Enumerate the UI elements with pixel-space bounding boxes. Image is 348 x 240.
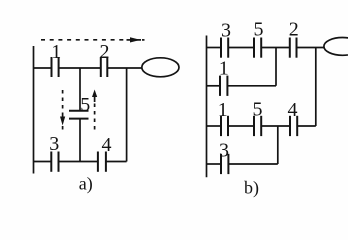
contact 3 row1 (b) plates (221, 38, 228, 58)
svg-text:a): a) (79, 173, 93, 194)
wire: row2 rail to contact 1 (b) (207, 85, 221, 87)
wire: contact 3 to contact 5 row1 (b) (228, 47, 254, 49)
contact 2 row1 (b) plates (290, 38, 297, 58)
wire: contact 2 to coil (a) (107, 67, 142, 69)
contact 3 row4 (b) plates (221, 154, 228, 174)
wire: rail to contact 3 row1 (b) (207, 47, 222, 49)
middle vertical wire, upper part (a) (79, 68, 81, 111)
wire: contact 3 row4 to junction (b) (228, 163, 277, 165)
contact 1 row3 (b) plates (221, 116, 228, 136)
dashed arrow (motion direction, circuit a) (41, 37, 145, 42)
wire: contact 3 to contact 4 (a) (59, 161, 98, 163)
contact 5 row1 (b) plates (254, 38, 261, 58)
right dashed motion line with up arrow (a) (92, 90, 97, 131)
svg-text:2: 2 (289, 19, 299, 41)
contact 1 (a) plates (52, 57, 59, 77)
svg-text:5: 5 (80, 94, 90, 116)
contact 1 row2 (b) plates (220, 76, 227, 96)
contact 5 (a) plates (vertical contact) (69, 111, 89, 119)
wire: contact 5 to contact 2 row1 (b) (261, 47, 290, 49)
svg-text:4: 4 (288, 99, 298, 121)
svg-text:b): b) (244, 177, 259, 198)
svg-text:5: 5 (253, 98, 263, 120)
svg-text:2: 2 (100, 41, 110, 63)
contact 5 row3 (b) plates (254, 116, 261, 136)
svg-text:3: 3 (49, 133, 59, 155)
left rail (b) (206, 36, 208, 178)
wire: contact 4 row3 to right rail (b) (297, 125, 316, 127)
contact 4 row3 (b) plates (290, 116, 297, 136)
coil / lamp (a) (142, 58, 179, 77)
svg-text:3: 3 (219, 139, 229, 161)
contact 4 (a) plates (98, 152, 106, 172)
wire: contact 1 to contact 5 row3 (b) (228, 125, 254, 127)
left dashed motion line with down arrow (a) (60, 90, 65, 130)
wire: contact 5 to contact 4 row3 (b) (261, 125, 290, 127)
right rail (a) (126, 68, 128, 162)
left rail (a) (33, 46, 35, 174)
wire: row3 rail to contact 1 (b) (207, 125, 222, 127)
vertical wire: row2 up to row1 between 5 and 2 (b) (275, 48, 277, 86)
wire: bottom rail to contact 3 (a) (34, 161, 52, 163)
svg-text:4: 4 (102, 134, 112, 156)
svg-text:1: 1 (218, 99, 228, 121)
middle vertical wire, lower part (a) (79, 119, 81, 162)
svg-text:1: 1 (219, 58, 229, 80)
coil / lamp (b), clipped at image edge (324, 38, 348, 56)
contact 3 (a) plates (51, 152, 58, 172)
svg-text:1: 1 (51, 41, 61, 63)
wire: contact 2 to coil (b) (297, 47, 325, 49)
wire: row4 rail to contact 3 (b) (207, 163, 222, 165)
wire: contact 4 to right rail (a) (106, 161, 127, 163)
wire: top rail to contact 1 (a) (34, 67, 52, 69)
svg-text:3: 3 (221, 19, 231, 41)
right rail (b): row1 junction down to row3 (315, 48, 317, 127)
wire: contact 1 row2 to junction (b) (227, 85, 276, 87)
wire: contact 1 to contact 2 (a) (59, 67, 101, 69)
svg-text:5: 5 (254, 19, 264, 41)
vertical wire: row4 up to row3 between 5 and 4 (b) (277, 126, 279, 164)
contact 2 (a) plates (101, 57, 108, 77)
